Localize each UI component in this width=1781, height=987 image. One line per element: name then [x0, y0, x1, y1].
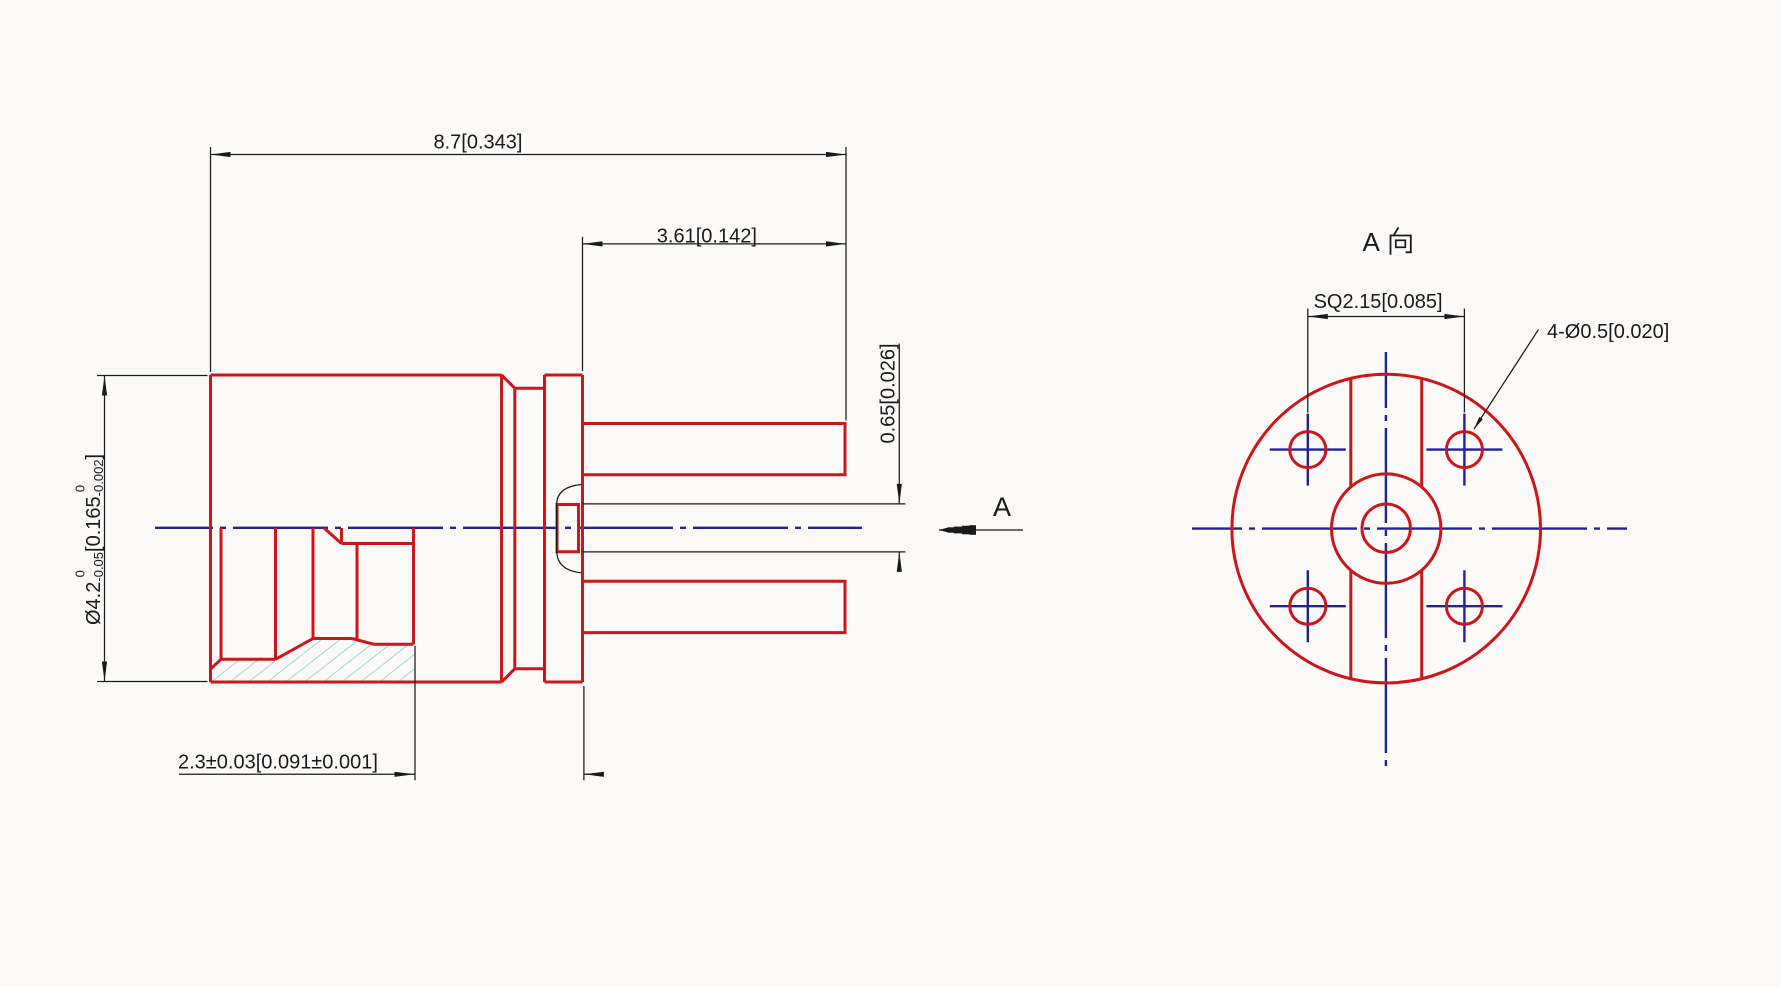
svg-text:8.7[0.343]: 8.7[0.343] [434, 132, 523, 154]
svg-text:A: A [1363, 227, 1381, 257]
svg-text:2.3±0.03[0.091±0.001]: 2.3±0.03[0.091±0.001] [178, 752, 378, 774]
svg-text:3.61[0.142]: 3.61[0.142] [657, 226, 757, 248]
svg-text:SQ2.15[0.085]: SQ2.15[0.085] [1314, 291, 1443, 313]
svg-text:0.65[0.026]: 0.65[0.026] [878, 343, 900, 443]
svg-text:A: A [993, 492, 1011, 522]
svg-text:4-Ø0.5[0.020]: 4-Ø0.5[0.020] [1547, 321, 1669, 343]
